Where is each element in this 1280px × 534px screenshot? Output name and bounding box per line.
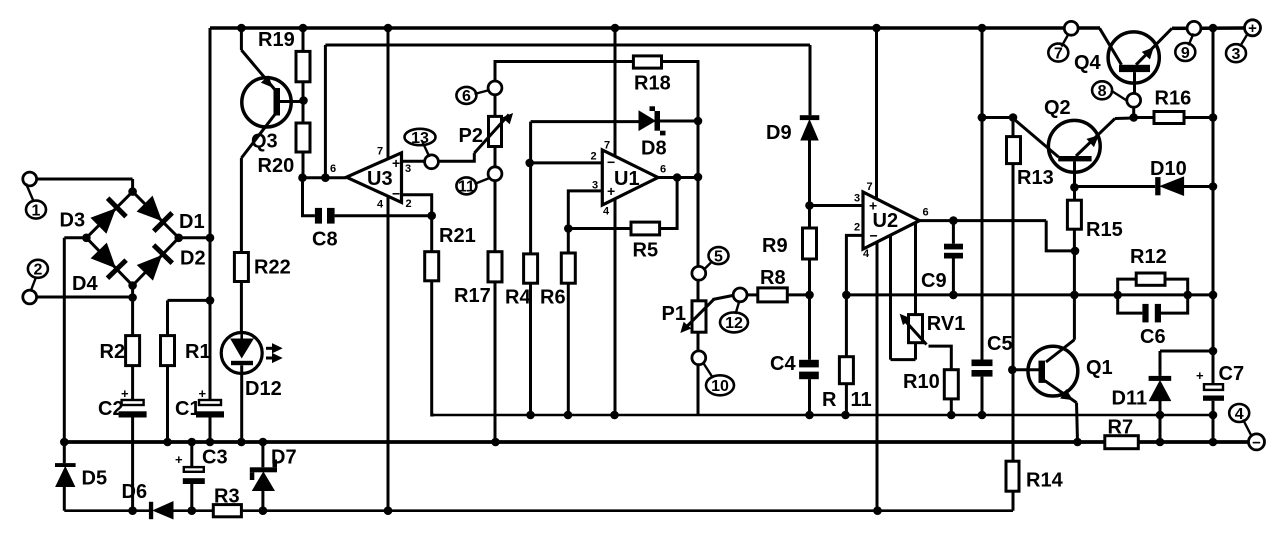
svg-text:D6: D6 (122, 481, 148, 503)
svg-text:C2: C2 (98, 398, 124, 420)
svg-text:8: 8 (1098, 83, 1107, 100)
svg-text:D2: D2 (180, 248, 206, 270)
svg-text:13: 13 (411, 130, 429, 147)
svg-text:R7: R7 (1108, 417, 1134, 439)
svg-text:11: 11 (458, 179, 475, 196)
svg-text:R22: R22 (254, 257, 291, 279)
svg-text:R10: R10 (903, 371, 940, 393)
svg-text:10: 10 (711, 378, 729, 395)
svg-text:6: 6 (923, 207, 929, 219)
svg-text:−: − (392, 186, 400, 202)
svg-text:R12: R12 (1130, 246, 1167, 268)
svg-text:U3: U3 (367, 168, 393, 190)
svg-text:1: 1 (32, 202, 41, 219)
svg-text:2: 2 (854, 222, 860, 234)
svg-text:U1: U1 (614, 168, 640, 190)
svg-text:R3: R3 (214, 486, 240, 508)
svg-text:R19: R19 (258, 29, 295, 51)
svg-text:D4: D4 (72, 273, 98, 295)
svg-text:R5: R5 (633, 240, 659, 262)
svg-text:7: 7 (377, 146, 383, 158)
svg-text:6: 6 (330, 163, 336, 175)
svg-text:+: + (175, 452, 183, 467)
svg-text:C1: C1 (175, 398, 201, 420)
svg-text:2: 2 (591, 151, 597, 163)
svg-text:D3: D3 (60, 210, 86, 232)
svg-text:R9: R9 (762, 235, 788, 257)
svg-text:D7: D7 (271, 447, 297, 469)
svg-text:R8: R8 (760, 267, 786, 289)
svg-text:−: − (1252, 434, 1261, 451)
svg-text:+: + (1196, 368, 1204, 383)
svg-text:+: + (199, 386, 207, 401)
svg-text:+: + (869, 198, 877, 214)
svg-text:6: 6 (462, 88, 471, 105)
svg-text:2: 2 (406, 198, 412, 210)
svg-text:−: − (870, 228, 878, 244)
svg-text:9: 9 (1181, 45, 1190, 62)
svg-text:D5: D5 (82, 468, 108, 490)
svg-text:R1: R1 (185, 341, 211, 363)
svg-text:Q4: Q4 (1074, 52, 1102, 74)
svg-text:11: 11 (851, 389, 872, 411)
svg-text:P1: P1 (662, 303, 686, 325)
svg-text:−: − (607, 154, 615, 170)
svg-text:4: 4 (603, 206, 610, 218)
svg-text:C8: C8 (312, 229, 338, 251)
svg-text:D11: D11 (1112, 388, 1148, 410)
svg-text:R21: R21 (439, 225, 476, 247)
svg-text:D12: D12 (245, 378, 282, 400)
svg-text:3: 3 (1232, 46, 1241, 63)
svg-text:4: 4 (863, 248, 870, 260)
svg-text:4: 4 (377, 199, 384, 211)
svg-text:R13: R13 (1017, 167, 1054, 189)
svg-text:7: 7 (604, 140, 610, 152)
svg-text:R4: R4 (505, 287, 531, 309)
svg-text:3: 3 (405, 163, 411, 175)
svg-text:3: 3 (854, 193, 860, 205)
svg-text:6: 6 (660, 164, 666, 176)
svg-text:5: 5 (714, 248, 723, 265)
svg-text:2: 2 (33, 262, 42, 279)
svg-text:D10: D10 (1150, 158, 1187, 180)
svg-text:R20: R20 (258, 155, 295, 177)
svg-text:R15: R15 (1086, 219, 1123, 241)
svg-text:C3: C3 (202, 447, 228, 469)
svg-text:12: 12 (725, 315, 743, 332)
svg-text:+: + (1248, 20, 1257, 37)
svg-text:7: 7 (867, 181, 873, 193)
svg-text:C7: C7 (1219, 363, 1245, 385)
svg-text:Q3: Q3 (251, 131, 278, 153)
svg-text:Q1: Q1 (1086, 357, 1113, 379)
svg-text:Q2: Q2 (1044, 97, 1071, 119)
svg-text:RV1: RV1 (927, 313, 966, 335)
svg-text:R17: R17 (454, 285, 491, 307)
svg-text:+: + (392, 155, 400, 171)
svg-text:C6: C6 (1140, 326, 1166, 348)
svg-text:P2: P2 (459, 125, 483, 147)
svg-text:+: + (121, 386, 129, 401)
svg-text:R14: R14 (1026, 470, 1064, 492)
svg-text:D1: D1 (179, 211, 205, 233)
svg-text:+: + (607, 183, 615, 199)
svg-text:R16: R16 (1155, 88, 1192, 110)
svg-text:7: 7 (1054, 45, 1063, 62)
svg-text:C4: C4 (770, 353, 796, 375)
svg-text:R: R (822, 389, 837, 411)
svg-text:R2: R2 (100, 341, 126, 363)
svg-text:R18: R18 (634, 73, 671, 95)
svg-text:R6: R6 (540, 287, 566, 309)
svg-text:D9: D9 (766, 122, 792, 144)
svg-text:D8: D8 (641, 138, 667, 160)
svg-text:C5: C5 (987, 333, 1013, 355)
svg-text:C9: C9 (921, 270, 947, 292)
